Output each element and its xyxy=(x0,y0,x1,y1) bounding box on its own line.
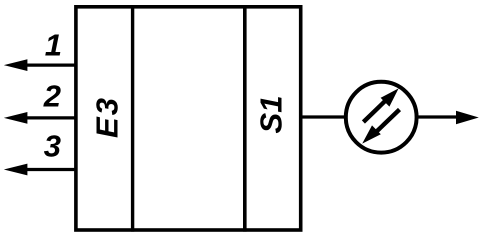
transducer circle B1 xyxy=(346,82,417,153)
transducer arrow down-left xyxy=(362,110,399,144)
arrowhead output 3 xyxy=(4,164,28,176)
svg-text:E3: E3 xyxy=(89,96,124,138)
svg-text:2: 2 xyxy=(43,79,61,114)
svg-text:3: 3 xyxy=(44,129,61,164)
svg-text:1: 1 xyxy=(45,28,62,63)
wire output 3 xyxy=(24,168,76,171)
divider line S1 column xyxy=(243,5,247,232)
output wire xyxy=(417,115,460,118)
arrowhead output 2 xyxy=(4,112,28,124)
wire block to transducer xyxy=(301,115,345,118)
transducer arrow up-right xyxy=(363,88,398,122)
wire output 1 xyxy=(24,63,76,66)
divider line E3 column xyxy=(131,5,134,232)
svg-text:S1: S1 xyxy=(254,96,289,134)
output arrowhead xyxy=(456,111,479,124)
wire output 2 xyxy=(24,116,76,119)
arrowhead output 1 xyxy=(4,59,28,71)
block U1 outline xyxy=(76,7,301,230)
